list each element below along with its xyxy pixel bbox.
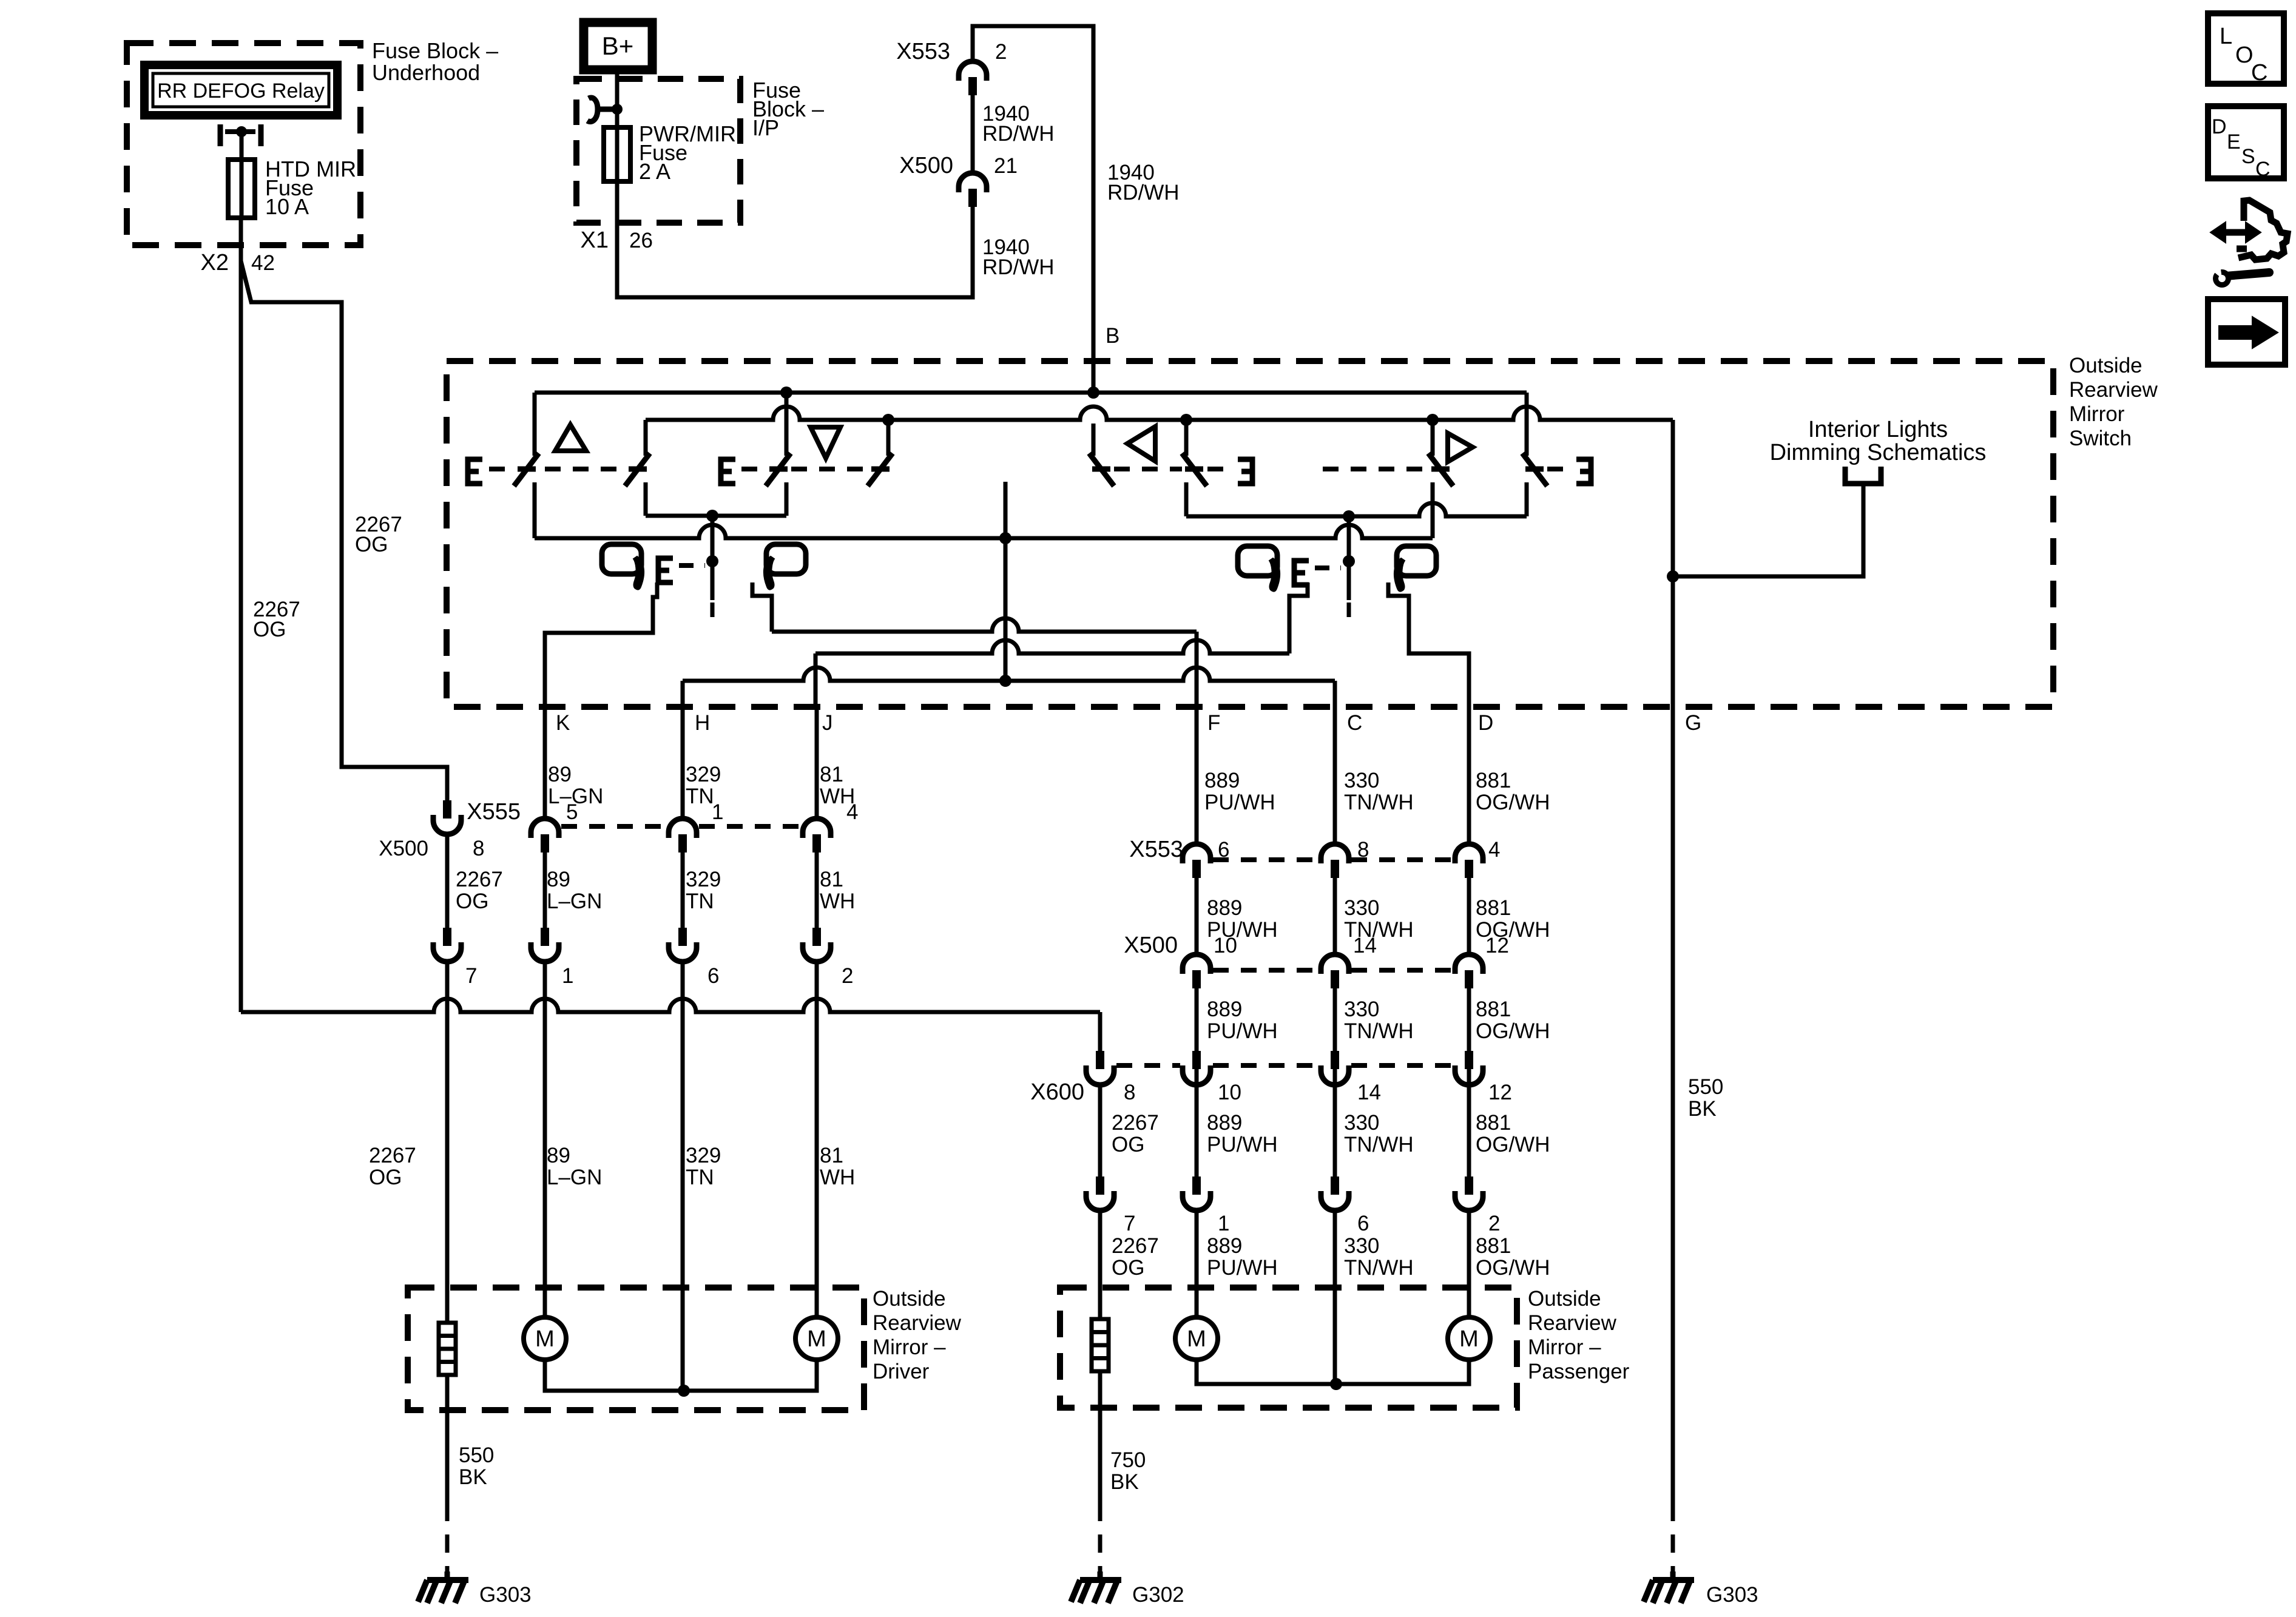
wire C mid1 bbox=[1333, 878, 1337, 953]
svg-text:329: 329 bbox=[686, 1144, 721, 1167]
svg-text:G303: G303 bbox=[479, 1583, 532, 1607]
svg-text:K: K bbox=[556, 711, 570, 735]
wire relay to fuse bbox=[240, 132, 244, 160]
svg-text:X500: X500 bbox=[899, 153, 953, 178]
wire C drop bbox=[1333, 681, 1337, 707]
svg-text:X555: X555 bbox=[467, 799, 521, 825]
wire H drop bbox=[681, 681, 685, 707]
svg-text:330: 330 bbox=[1344, 1111, 1379, 1135]
svg-text:10: 10 bbox=[1218, 1081, 1241, 1104]
svg-text:X2: X2 bbox=[201, 250, 229, 275]
svg-text:4: 4 bbox=[1488, 838, 1500, 862]
svg-text:C: C bbox=[2251, 60, 2267, 86]
node G junction bbox=[1667, 570, 1679, 582]
connector X553 pin4 bbox=[1455, 844, 1483, 863]
svg-text:2 A: 2 A bbox=[639, 159, 670, 184]
svg-text:750: 750 bbox=[1110, 1448, 1146, 1472]
connector mirror driver pin1 bbox=[531, 942, 559, 962]
svg-text:2: 2 bbox=[995, 40, 1007, 64]
svg-text:BK: BK bbox=[459, 1465, 487, 1489]
svg-text:81: 81 bbox=[820, 763, 843, 786]
contact to F line bbox=[752, 582, 772, 632]
svg-text:1: 1 bbox=[712, 800, 723, 824]
svg-text:Rearview: Rearview bbox=[1528, 1311, 1617, 1335]
svg-text:M: M bbox=[1187, 1326, 1206, 1352]
connector mirror driver pin7 bbox=[433, 942, 461, 962]
wire D mid1 bbox=[1467, 878, 1471, 953]
svg-text:89: 89 bbox=[547, 1144, 570, 1167]
battery B+ box bbox=[584, 22, 652, 70]
linkage dashes blade3-blade4 bbox=[791, 467, 868, 471]
connector X600 pin14 bbox=[1321, 1065, 1349, 1085]
linkage dashes into blade7 bbox=[1323, 467, 1427, 471]
node HC junction bbox=[999, 675, 1011, 687]
svg-text:881: 881 bbox=[1476, 896, 1511, 920]
svg-text:2267: 2267 bbox=[369, 1144, 416, 1167]
svg-text:Mirror –: Mirror – bbox=[873, 1335, 946, 1359]
svg-text:881: 881 bbox=[1476, 1111, 1511, 1135]
svg-text:Outside: Outside bbox=[1528, 1287, 1601, 1311]
svg-text:C: C bbox=[1347, 711, 1362, 735]
svg-text:Outside: Outside bbox=[873, 1287, 946, 1311]
svg-text:X553: X553 bbox=[896, 39, 950, 64]
ground G302 bbox=[1098, 1571, 1103, 1579]
switch down blade3 bbox=[785, 393, 789, 456]
svg-text:330: 330 bbox=[1344, 896, 1379, 920]
linkage E driver selector bbox=[658, 558, 673, 582]
svg-text:Interior Lights: Interior Lights bbox=[1808, 417, 1948, 442]
wire branch to X500-8 bbox=[241, 261, 447, 800]
connector X600 pin12 bbox=[1455, 1065, 1483, 1085]
wire G bbox=[1671, 420, 1675, 1503]
svg-text:Rearview: Rearview bbox=[873, 1311, 962, 1335]
svg-text:89: 89 bbox=[547, 868, 570, 891]
svg-text:OG: OG bbox=[1112, 1256, 1144, 1280]
svg-text:6: 6 bbox=[1357, 1212, 1369, 1235]
svg-text:81: 81 bbox=[820, 868, 843, 891]
selector pole passenger bbox=[1347, 516, 1351, 600]
svg-text:OG: OG bbox=[369, 1166, 402, 1189]
X555 gang dashes bbox=[561, 824, 666, 829]
contact to J line bbox=[1289, 582, 1308, 653]
svg-text:12: 12 bbox=[1485, 934, 1509, 957]
connector X553 pin8 bbox=[1321, 844, 1349, 863]
connector mirror driver pin2 bbox=[803, 942, 831, 962]
motor driver right bbox=[795, 1317, 838, 1360]
svg-text:PU/WH: PU/WH bbox=[1207, 1133, 1278, 1156]
svg-text:330: 330 bbox=[1344, 769, 1379, 792]
wire J upper bbox=[815, 707, 819, 817]
wire 750 BK bbox=[1098, 1371, 1102, 1503]
X553 gang dashes bbox=[1213, 857, 1319, 862]
wire 2267 mid bbox=[445, 834, 450, 932]
svg-text:D: D bbox=[2212, 115, 2227, 138]
fuse HTD MIR 10A bbox=[240, 160, 244, 218]
svg-text:RR DEFOG Relay: RR DEFOG Relay bbox=[157, 79, 325, 103]
connector X500 pin10 bbox=[1183, 954, 1210, 974]
svg-text:4: 4 bbox=[846, 800, 858, 824]
connector mirror pass pin1 bbox=[1183, 1191, 1210, 1210]
connector mirror pass pin6 bbox=[1321, 1191, 1349, 1210]
svg-text:G: G bbox=[1685, 711, 1701, 735]
svg-text:329: 329 bbox=[686, 868, 721, 891]
connector X500 pin12 bbox=[1455, 954, 1483, 974]
motor passenger right bbox=[1448, 1317, 1490, 1360]
svg-text:RD/WH: RD/WH bbox=[982, 255, 1055, 279]
X500 gang dashes bbox=[1213, 968, 1319, 973]
linkage E passenger selector bbox=[1294, 561, 1309, 585]
svg-text:TN/WH: TN/WH bbox=[1344, 1019, 1414, 1043]
fusible link curl bbox=[587, 98, 614, 122]
switch left blade5 bbox=[1092, 424, 1096, 456]
svg-text:8: 8 bbox=[1124, 1081, 1135, 1104]
node rail3b junction bbox=[706, 510, 718, 522]
wire 550 BK G dashed bbox=[1671, 1503, 1675, 1579]
wire driver motor bus bbox=[545, 1360, 817, 1391]
svg-text:6: 6 bbox=[707, 964, 719, 988]
svg-text:2267: 2267 bbox=[1112, 1234, 1159, 1258]
relay RR DEFOG bbox=[144, 65, 337, 115]
svg-text:L–GN: L–GN bbox=[547, 890, 602, 913]
wire F lower bbox=[1195, 1210, 1199, 1317]
outside rearview mirror passenger box bbox=[1060, 1288, 1517, 1408]
svg-text:BK: BK bbox=[1688, 1097, 1717, 1121]
svg-text:550: 550 bbox=[459, 1443, 494, 1467]
mirror icon passenger-left bbox=[1238, 546, 1277, 576]
svg-text:OG: OG bbox=[355, 533, 388, 556]
mirror icon driver-right bbox=[766, 544, 806, 574]
svg-text:OG: OG bbox=[253, 618, 286, 641]
connector X555 pin4 bbox=[803, 819, 831, 838]
svg-text:OG/WH: OG/WH bbox=[1476, 1019, 1550, 1043]
wire F upper bbox=[1195, 707, 1199, 842]
triangle right bbox=[1448, 433, 1473, 462]
svg-text:S: S bbox=[2241, 145, 2255, 168]
linkage dashes E-blade3 bbox=[741, 467, 766, 471]
svg-text:G303: G303 bbox=[1706, 1583, 1758, 1607]
svg-text:89: 89 bbox=[548, 763, 572, 786]
node rail1 junctions bbox=[780, 387, 792, 399]
svg-text:B: B bbox=[1106, 324, 1119, 348]
svg-text:2: 2 bbox=[1488, 1212, 1500, 1235]
wire K lower bbox=[543, 962, 547, 1317]
outside rearview mirror switch box bbox=[447, 361, 2053, 707]
switch up blade1 bbox=[533, 393, 537, 456]
wire F mid2 bbox=[1195, 988, 1199, 1176]
svg-text:Passenger: Passenger bbox=[1528, 1360, 1630, 1383]
relay terminal bracket bbox=[218, 124, 223, 146]
wire passenger motor bus bbox=[1197, 1360, 1469, 1384]
switch down blade4 bbox=[886, 420, 891, 456]
interior lights off-page bracket bbox=[1845, 467, 1881, 484]
svg-text:42: 42 bbox=[251, 251, 275, 275]
node rail3 junction bbox=[999, 532, 1011, 544]
wire heater bus bbox=[241, 999, 1100, 1012]
triangle left bbox=[1127, 427, 1155, 461]
switch up blade2 bbox=[644, 420, 648, 456]
svg-text:1: 1 bbox=[562, 964, 573, 988]
linkage E mid bbox=[721, 459, 735, 484]
svg-text:881: 881 bbox=[1476, 998, 1511, 1021]
wire H lower bbox=[681, 962, 685, 1391]
svg-text:Mirror –: Mirror – bbox=[1528, 1335, 1601, 1359]
svg-text:330: 330 bbox=[1344, 1234, 1379, 1258]
svg-text:TN: TN bbox=[686, 785, 714, 808]
connector X600 pin10 bbox=[1183, 1065, 1210, 1085]
svg-text:M: M bbox=[1459, 1326, 1479, 1352]
svg-text:M: M bbox=[535, 1326, 555, 1352]
ground G303 right bbox=[1670, 1571, 1676, 1579]
wire J mid bbox=[815, 852, 819, 932]
connector X553 pin 2 bbox=[959, 61, 987, 81]
svg-text:2267: 2267 bbox=[456, 868, 503, 891]
wire A-line left-right common bbox=[1186, 503, 1527, 516]
svg-text:1: 1 bbox=[1218, 1212, 1229, 1235]
heater element driver bbox=[439, 1323, 456, 1375]
svg-text:OG: OG bbox=[456, 890, 488, 913]
linkage dashes blade8-end bbox=[1547, 467, 1573, 471]
icon LOC bbox=[2208, 13, 2284, 84]
wire B+ to fuse bbox=[615, 70, 620, 127]
svg-text:550: 550 bbox=[1688, 1075, 1723, 1099]
svg-text:D: D bbox=[1478, 711, 1493, 735]
svg-text:10 A: 10 A bbox=[265, 194, 309, 219]
connector mirror driver pin6 bbox=[669, 942, 697, 962]
wire K mid bbox=[543, 852, 547, 932]
linkage dashes blade1-blade2 bbox=[545, 467, 625, 471]
svg-text:PU/WH: PU/WH bbox=[1207, 1256, 1278, 1280]
wire D lower bbox=[1467, 1210, 1471, 1317]
svg-text:889: 889 bbox=[1207, 1234, 1242, 1258]
connector X500 pin14 bbox=[1321, 954, 1349, 974]
wire rail1 bbox=[535, 391, 1527, 395]
svg-text:2267: 2267 bbox=[1112, 1111, 1159, 1135]
icon arrow bbox=[2208, 299, 2285, 365]
svg-text:14: 14 bbox=[1353, 934, 1377, 957]
wire H mid bbox=[681, 852, 685, 932]
svg-text:F: F bbox=[1207, 711, 1220, 735]
wire K upper bbox=[543, 707, 547, 817]
svg-text:10: 10 bbox=[1214, 934, 1237, 957]
svg-text:WH: WH bbox=[820, 1166, 855, 1189]
wire 2267 pass lower bbox=[1098, 1210, 1102, 1319]
svg-text:Rearview: Rearview bbox=[2069, 378, 2158, 402]
fuse block IP box bbox=[576, 79, 740, 223]
svg-text:21: 21 bbox=[994, 154, 1018, 178]
wire H upper bbox=[681, 707, 685, 817]
contact to D line bbox=[1388, 582, 1469, 707]
svg-text:C: C bbox=[2255, 158, 2271, 181]
wire H C feed bbox=[683, 667, 1335, 681]
wire to interior lights bbox=[1673, 486, 1863, 576]
svg-text:X500: X500 bbox=[379, 837, 428, 860]
svg-text:OG: OG bbox=[1112, 1133, 1144, 1156]
svg-text:Driver: Driver bbox=[873, 1360, 930, 1383]
svg-text:WH: WH bbox=[820, 890, 855, 913]
svg-text:L–GN: L–GN bbox=[547, 1166, 602, 1189]
svg-text:7: 7 bbox=[1124, 1212, 1135, 1235]
svg-text:L: L bbox=[2220, 24, 2232, 49]
svg-text:OG/WH: OG/WH bbox=[1476, 791, 1550, 814]
wire C upper bbox=[1333, 707, 1337, 842]
heater element passenger bbox=[1092, 1319, 1109, 1371]
svg-text:TN: TN bbox=[686, 890, 714, 913]
svg-text:I/P: I/P bbox=[752, 115, 779, 140]
X600 gang dashes bbox=[1116, 1063, 1180, 1068]
fuse block underhood box bbox=[127, 43, 360, 245]
connector mirror pass pin2 bbox=[1455, 1191, 1483, 1210]
svg-text:TN/WH: TN/WH bbox=[1344, 1256, 1414, 1280]
selector pole driver bbox=[711, 516, 715, 600]
svg-text:8: 8 bbox=[473, 837, 484, 860]
connector X553 pin6 bbox=[1183, 844, 1210, 863]
linkage E left bbox=[468, 459, 482, 484]
mirror icon driver-left bbox=[602, 544, 641, 574]
svg-text:PU/WH: PU/WH bbox=[1204, 791, 1275, 814]
mirror icon passenger-right bbox=[1397, 546, 1436, 576]
linkage dashes blade5-blade6 bbox=[1114, 467, 1182, 471]
svg-text:81: 81 bbox=[820, 1144, 843, 1167]
svg-text:Outside: Outside bbox=[2069, 354, 2142, 377]
wire fuse down long 2267 OG bbox=[239, 218, 243, 1012]
wire F feed bbox=[772, 618, 1197, 632]
svg-text:Mirror: Mirror bbox=[2069, 402, 2125, 426]
icon tool arrow wrench bbox=[2224, 229, 2247, 236]
svg-text:G302: G302 bbox=[1132, 1583, 1184, 1607]
wire J feed bbox=[815, 640, 1289, 653]
svg-text:Switch: Switch bbox=[2069, 427, 2132, 450]
icon DESC bbox=[2208, 106, 2284, 178]
triangle down bbox=[811, 427, 840, 458]
svg-text:2: 2 bbox=[842, 964, 853, 988]
wire rail3 commons bbox=[535, 525, 1433, 538]
svg-text:RD/WH: RD/WH bbox=[1107, 181, 1180, 204]
svg-text:X500: X500 bbox=[1124, 933, 1178, 958]
outside rearview mirror driver box bbox=[408, 1288, 864, 1410]
connector mirror pass pin7 bbox=[1086, 1191, 1114, 1210]
wire top B+ feed bbox=[973, 26, 1093, 393]
svg-text:12: 12 bbox=[1488, 1081, 1512, 1104]
svg-text:OG/WH: OG/WH bbox=[1476, 1133, 1550, 1156]
wire rail2 bbox=[646, 407, 1673, 420]
wire J lower bbox=[815, 962, 819, 1317]
svg-text:7: 7 bbox=[465, 964, 477, 988]
svg-text:5: 5 bbox=[566, 800, 578, 824]
svg-text:B+: B+ bbox=[602, 32, 634, 60]
svg-text:889: 889 bbox=[1207, 998, 1242, 1021]
switch left blade6 bbox=[1184, 420, 1189, 456]
fuse PWR/MIR 2A bbox=[604, 127, 630, 181]
triangle up bbox=[555, 425, 586, 451]
wire D mid2 bbox=[1467, 988, 1471, 1176]
svg-text:X1: X1 bbox=[581, 228, 609, 253]
svg-text:Underhood: Underhood bbox=[372, 60, 480, 85]
motor passenger left bbox=[1175, 1317, 1218, 1360]
svg-text:889: 889 bbox=[1207, 896, 1242, 920]
connector X600 pin8 bbox=[1086, 1065, 1114, 1085]
svg-text:889: 889 bbox=[1207, 1111, 1242, 1135]
ground G303 driver bbox=[445, 1571, 450, 1579]
wire X553-2 to X500-21 bbox=[971, 95, 975, 173]
svg-text:Dimming Schematics: Dimming Schematics bbox=[1770, 440, 1987, 465]
svg-text:X553: X553 bbox=[1129, 837, 1183, 862]
wire 2267 lower bbox=[445, 962, 450, 1323]
svg-text:H: H bbox=[695, 711, 710, 735]
svg-text:OG/WH: OG/WH bbox=[1476, 1256, 1550, 1280]
svg-text:X600: X600 bbox=[1030, 1079, 1084, 1105]
svg-text:J: J bbox=[822, 711, 833, 735]
switch right blade8 bbox=[1525, 393, 1529, 456]
svg-text:14: 14 bbox=[1357, 1081, 1381, 1104]
svg-text:889: 889 bbox=[1204, 769, 1240, 792]
svg-text:881: 881 bbox=[1476, 769, 1511, 792]
motor driver left bbox=[524, 1317, 566, 1360]
svg-text:Fuse Block –: Fuse Block – bbox=[372, 38, 498, 63]
svg-text:330: 330 bbox=[1344, 998, 1379, 1021]
wire 550 BK driver bbox=[445, 1375, 450, 1503]
connector X555 pin1 bbox=[669, 819, 697, 838]
svg-text:26: 26 bbox=[629, 229, 653, 252]
connector X555 pin5 bbox=[531, 819, 559, 838]
wire common riser bbox=[1004, 482, 1008, 681]
svg-text:TN: TN bbox=[686, 1166, 714, 1189]
node rail2 junctions bbox=[882, 414, 894, 426]
svg-text:881: 881 bbox=[1476, 1234, 1511, 1258]
wire X1-26 to X500-21 bbox=[617, 181, 973, 297]
wire C mid2 bbox=[1333, 988, 1337, 1176]
svg-text:BK: BK bbox=[1110, 1470, 1139, 1494]
contact to K bbox=[545, 582, 657, 707]
linkage dashes blade6-end bbox=[1207, 467, 1234, 471]
node A-line junction bbox=[1343, 510, 1355, 522]
svg-text:TN/WH: TN/WH bbox=[1344, 791, 1414, 814]
svg-text:RD/WH: RD/WH bbox=[982, 122, 1055, 146]
wire D upper bbox=[1467, 707, 1471, 842]
connector X500 pin8 bbox=[433, 815, 461, 834]
svg-text:M: M bbox=[807, 1326, 826, 1352]
svg-text:E: E bbox=[2227, 130, 2241, 154]
wire C lower bbox=[1333, 1210, 1337, 1384]
wire F mid1 bbox=[1195, 878, 1199, 953]
svg-text:TN/WH: TN/WH bbox=[1344, 1133, 1414, 1156]
svg-text:PU/WH: PU/WH bbox=[1207, 1019, 1278, 1043]
svg-text:329: 329 bbox=[686, 763, 721, 786]
wire X600 mid bbox=[1098, 1085, 1102, 1176]
switch right blade7 bbox=[1431, 420, 1435, 456]
wire rail3b up-down common bbox=[646, 514, 786, 518]
connector X500 pin 21 bbox=[959, 173, 987, 192]
